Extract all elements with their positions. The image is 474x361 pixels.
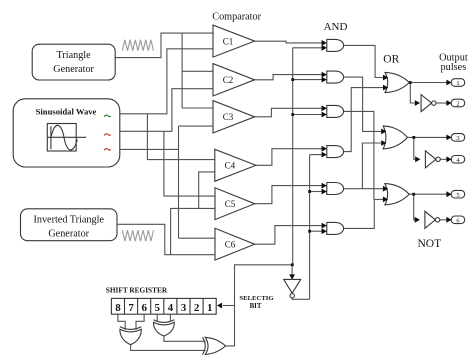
wire AND5 output to OR3 top and OR2 bottom [344,188,383,190]
wire XOR1 output to XOR3 [131,345,206,351]
wire C5 output to AND5 [255,186,322,204]
svg-text:4: 4 [168,302,174,314]
svg-text:3: 3 [456,135,459,142]
sinusoidal wave source block [13,99,120,167]
wire XOR2 output to XOR3 [164,336,206,341]
wire selecting bit back to shift register [223,305,235,307]
not gate N1 [421,95,436,112]
and gate U2 [327,71,344,83]
node bus A to AND2 [291,78,294,81]
or gate O1 [385,72,409,92]
wire register cell5 to XOR2 [156,314,158,322]
inverted triangle generator block [21,209,118,241]
svg-text:C2: C2 [223,75,234,85]
svg-text:C1: C1 [223,37,234,47]
svg-text:5: 5 [456,192,459,199]
wire to OR3 bottom input [374,198,383,200]
node OR1 output branch [409,81,412,84]
svg-text:C6: C6 [225,240,236,250]
svg-text:1: 1 [456,80,459,87]
zigzag triangle-wave symbol bottom [122,230,153,241]
and gate U3 [327,105,344,117]
node inverter input arrow down [289,274,295,279]
wire C6 output to AND6 [255,226,322,245]
wire inverted-triangle net to C6- C5- C4- [117,224,215,254]
svg-text:Generator: Generator [53,64,94,75]
wire C1 output to AND1 [255,41,322,43]
svg-text:7: 7 [128,302,134,314]
node bus B to AND6 [308,230,311,233]
node bus B to AND5 [308,190,311,193]
outport block 1 [451,79,465,88]
svg-text:Comparator: Comparator [212,11,261,22]
JUNCTION-DOTS [291,78,415,266]
triangle generator block [32,44,115,80]
svg-text:BIT: BIT [250,303,262,310]
wire AND2 output to OR2 top [344,77,382,131]
and gate U4 [327,146,344,158]
WIRES-LAYER [115,33,447,350]
node shift register input arrow left [217,303,222,309]
wire XOR3 output up to buses and inverter [225,265,292,346]
wire triangle-generator output net to C1+ C2+ C3+ [115,33,213,58]
wire inverter output to bus B [292,298,309,299]
wire sine phase1 net to C1- and C4+ [120,49,213,114]
svg-text:1: 1 [207,302,213,314]
wire sine phase3 net to C3- and C6+ [120,148,179,150]
node NOT input arrows [415,100,420,106]
svg-text:Generator: Generator [48,228,89,239]
wire AND6 output up [344,199,375,228]
outport block 4 [451,156,465,165]
svg-text:AND: AND [324,21,348,33]
wire sine phase2 net to C2- and C5+ [120,89,213,132]
wire register cell6 to XOR1 [136,314,144,330]
not gate selecting-bit inverter [284,279,301,298]
svg-text:C4: C4 [225,161,236,171]
wire OR3 output to outport5 and NOT3 [409,193,447,195]
wire C3 output to AND3 [255,108,322,117]
and gate U5 [327,183,344,195]
svg-text:Sinusoidal Wave: Sinusoidal Wave [36,106,97,116]
outport block 2 [451,99,465,108]
comparator C5 [215,188,255,220]
svg-text:5: 5 [155,302,161,314]
svg-text:2: 2 [194,302,200,314]
comparator C3 [213,101,255,133]
wire AND4 output to OR1 bottom [344,88,383,152]
or gate O2 [383,126,407,149]
comparator C6 [215,228,255,260]
or gate O3 [385,184,409,205]
outport block 5 [451,190,465,199]
comparator C2 [213,64,255,96]
and gate U1 [327,39,344,51]
comparator C1 [213,25,255,57]
node OR2 output branch [412,136,415,139]
TEXT-LAYER [106,11,468,310]
xor gate X3 [202,337,225,354]
wire C4 output to AND4 [256,149,322,166]
node AND input arrows [322,40,327,46]
shift register [111,298,216,314]
zigzag triangle-wave symbol top [122,40,153,51]
node outport input arrows [446,80,451,86]
xor gate X1 [120,327,141,345]
svg-text:C3: C3 [223,112,234,122]
svg-text:NOT: NOT [418,238,442,250]
svg-text:Inverted Triangle: Inverted Triangle [33,215,104,226]
ARROWS-LAYER [217,40,452,308]
wire register cell4 to XOR2 [169,314,171,322]
svg-text:2: 2 [456,101,459,108]
node OR input arrows [383,75,388,81]
outport block 3 [451,134,465,143]
outport block 6 [451,216,465,225]
svg-text:Triangle: Triangle [57,50,92,61]
node sine output port 2 mark [104,134,111,136]
wire selecting-bit bus A vertical [292,48,294,265]
wire inverted selecting-bit bus B vertical [309,155,311,300]
node selecting bit branch [291,263,294,266]
svg-text:OR: OR [383,53,399,65]
wire AND1 output to OR1 top [344,45,383,77]
svg-text:SELECTIG: SELECTIG [239,295,274,302]
wire register cell8 to XOR1 [118,314,125,330]
node OR3 output branch [412,193,415,196]
wire C2 output to AND2 [255,75,322,80]
node sine output port 3 mark [104,149,111,151]
not gate N3 [425,211,440,228]
wire OR1 output to outport1 and NOT1 [409,82,447,84]
svg-text:C5: C5 [225,199,236,209]
svg-text:8: 8 [115,302,121,314]
comparator C4 [215,149,256,181]
svg-text:3: 3 [181,302,187,314]
node bus A to AND3 [291,113,294,116]
not gate N2 [425,151,440,168]
and gate U6 [327,222,344,234]
wire AND3 output down [344,111,374,199]
wire OR2 output to outport3 and NOT2 [407,136,447,138]
node sine output port 1 mark [104,115,111,117]
svg-text:6: 6 [141,302,147,314]
svg-text:SHIFT REGISTER: SHIFT REGISTER [106,286,168,295]
xor gate X2 [153,320,174,336]
svg-text:pulses: pulses [441,62,467,73]
